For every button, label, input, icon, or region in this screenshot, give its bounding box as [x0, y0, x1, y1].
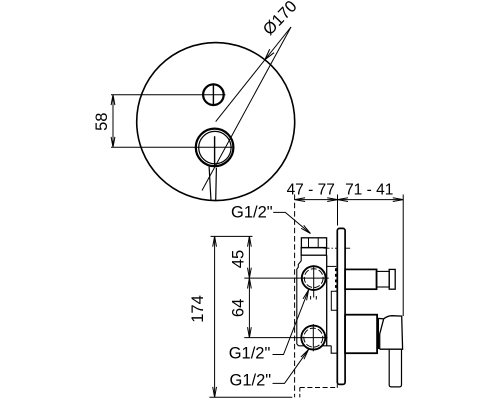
- body left edge: [297, 255, 301, 346]
- G1/2 top leader arrowhead: [301, 225, 310, 233]
- top view: lever knob outer circle: [196, 129, 234, 167]
- svg-text:G1/2": G1/2": [229, 344, 271, 362]
- leader line B through lever knob: [202, 27, 291, 191]
- diverter end cap: [389, 269, 395, 289]
- svg-text:47 - 77: 47 - 77: [287, 182, 335, 199]
- 71-41 right arrow: [393, 198, 403, 202]
- G1/2 bottom leader arrowhead: [301, 350, 309, 360]
- leader A open arrowhead on circle edge: [265, 49, 274, 60]
- diverter knob cylinder: [345, 269, 377, 289]
- lower port thread circle: [304, 328, 323, 347]
- svg-text:58: 58: [93, 113, 111, 131]
- dimension line 47-77: [295, 199, 338, 201]
- bottom extension line (174): [209, 396, 292, 398]
- body bottom edge: [298, 345, 331, 347]
- dimension 64 line: [248, 278, 250, 338]
- extension line right (71-41): [402, 195, 404, 317]
- top port centerline dash-dot: [324, 247, 338, 249]
- G1/2 bottom leader: [273, 350, 309, 384]
- dimension 58 arrow up: [111, 95, 115, 105]
- top view: escutcheon plate big circle: [137, 43, 295, 201]
- 71-41 left arrow: [338, 198, 348, 202]
- hidden body outline dashed bottom: [300, 387, 338, 389]
- body right edge: [326, 255, 328, 346]
- side view: top port nub outer: [301, 238, 326, 248]
- lower port crosshair horizontal / extension: [244, 337, 327, 339]
- upper port crosshair vertical: [313, 265, 315, 297]
- top extension line (174/45): [211, 235, 253, 237]
- top port nub inner left line: [308, 238, 310, 248]
- top view: lever handle left edge: [209, 166, 211, 201]
- G1/2 middle leader arrowhead: [303, 290, 309, 300]
- dimension 174 line: [214, 236, 216, 397]
- svg-text:64: 64: [230, 299, 248, 317]
- washer/spring strip (dashes): [335, 268, 337, 291]
- lever cartridge cylinder: [345, 315, 377, 354]
- dimension 58 arrow down: [111, 137, 115, 147]
- dimension 45 line: [248, 236, 250, 278]
- upper port circle outer: [302, 266, 326, 290]
- top port nub inner right line: [317, 238, 319, 248]
- text labels: [287, 182, 394, 199]
- lever knob crosshair horizontal / 58 extension line bottom: [111, 146, 233, 148]
- leader line A to circle center (diameter 170): [216, 27, 291, 122]
- lower cartridge connection lines: [331, 291, 337, 310]
- svg-text:174: 174: [189, 295, 207, 323]
- lower port crosshair vertical: [312, 324, 314, 351]
- svg-text:G1/2": G1/2": [230, 371, 272, 389]
- diverter crosshair horizontal / 58 extension line top: [111, 94, 226, 96]
- lever knob crosshair vertical: [214, 136, 216, 165]
- svg-text:G1/2": G1/2": [231, 204, 273, 222]
- upper port crosshair horizontal / extension: [244, 277, 328, 279]
- G1/2 middle leader: [273, 290, 309, 355]
- wall line dashed extension (47-77 left): [294, 195, 296, 398]
- top view: diverter knob small circle: [203, 84, 224, 105]
- dimension line 71-41: [338, 199, 404, 201]
- upper port thread circle: [304, 269, 323, 288]
- svg-text:45: 45: [229, 250, 247, 268]
- G1/2 top leader: [273, 212, 310, 233]
- diverter neck: [376, 271, 389, 287]
- top view: lever knob inner circle: [199, 131, 231, 163]
- 47-77 left arrow: [295, 198, 305, 202]
- lower port circle outer: [301, 326, 325, 350]
- diverter crosshair vertical: [212, 83, 214, 106]
- lever head: [378, 316, 403, 350]
- weep marks below upper port: [310, 296, 312, 300]
- svg-text:71 - 41: 71 - 41: [345, 182, 393, 199]
- top view: lever handle right edge: [215, 168, 218, 201]
- dimension 58 line: [112, 95, 114, 148]
- lever handle cylinder: [389, 349, 401, 387]
- nub base strip: [301, 248, 326, 256]
- upper cartridge neck top line behind plate: [327, 265, 337, 267]
- wall plate (escutcheon side): [337, 228, 345, 384]
- plate lower-left edge extension: [336, 384, 338, 388]
- extension line middle (plate face): [337, 195, 339, 226]
- 47-77 right arrow: [327, 198, 337, 202]
